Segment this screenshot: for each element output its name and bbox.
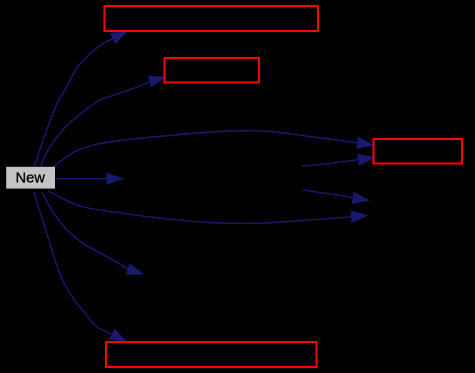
svg-text:New: New — [16, 171, 46, 187]
edge hidden mid node->right node — [302, 154, 374, 166]
edge New->hidden mid node — [56, 173, 123, 184]
edge hidden mid node->hidden node B — [303, 190, 369, 203]
node: top red box — [105, 6, 319, 31]
node New (root, grey) — [6, 167, 55, 189]
node: right red box — [374, 139, 463, 164]
node: bottom red box — [106, 342, 317, 367]
edge New->hidden node D — [42, 193, 143, 275]
edge New->right node (upper) — [53, 131, 373, 167]
edge New->hidden node C — [48, 191, 367, 223]
edge New->second node — [41, 76, 165, 166]
node: second red box — [165, 58, 260, 83]
edge New->bottom node — [34, 193, 126, 342]
edge New->top node — [35, 32, 127, 167]
